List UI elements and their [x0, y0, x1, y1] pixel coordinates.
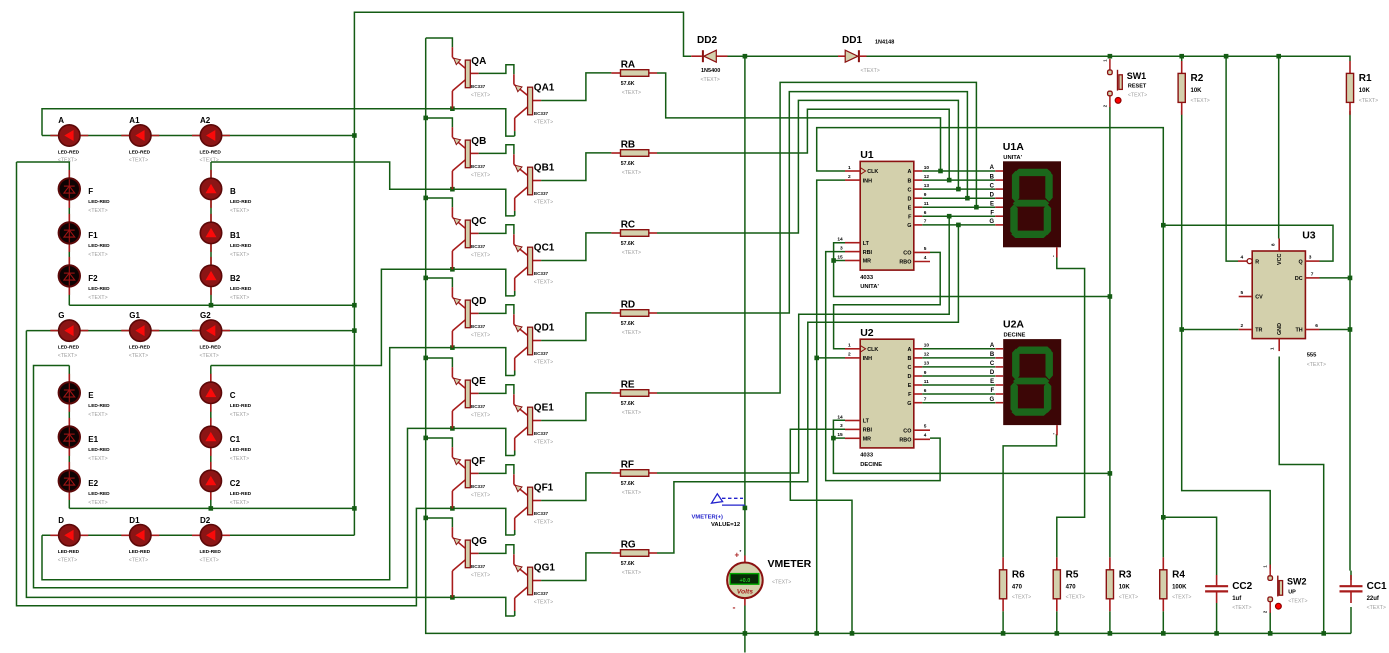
- svg-text:QC: QC: [471, 216, 486, 227]
- wire U2 MR link: [833, 437, 845, 439]
- svg-text:<TEXT>: <TEXT>: [471, 253, 490, 259]
- resistor RA 57.6K: [611, 60, 657, 97]
- wire QF base to QF1 emitter: [479, 465, 514, 475]
- wire QD emitter link: [426, 278, 453, 287]
- svg-text:57.6K: 57.6K: [621, 161, 635, 167]
- svg-text:11: 11: [924, 201, 929, 207]
- LED G2: [192, 311, 230, 359]
- svg-text:9: 9: [924, 192, 927, 198]
- svg-text:5: 5: [924, 424, 927, 430]
- diode DD2 1N5400: [691, 35, 727, 83]
- svg-text:<TEXT>: <TEXT>: [1128, 93, 1147, 99]
- 7-segment display U2A DECINE: [990, 319, 1062, 439]
- wire U2 pin G to display U2A: [922, 402, 995, 404]
- svg-text:BC337: BC337: [534, 511, 549, 516]
- svg-text:3: 3: [840, 245, 843, 251]
- svg-text:2: 2: [848, 174, 851, 180]
- resistor RD 57.6K: [611, 300, 657, 337]
- svg-text:<TEXT>: <TEXT>: [88, 412, 107, 418]
- LED C: [200, 374, 252, 418]
- svg-text:<TEXT>: <TEXT>: [471, 493, 490, 499]
- svg-text:<TEXT>: <TEXT>: [534, 360, 553, 366]
- svg-text:<TEXT>: <TEXT>: [200, 353, 219, 359]
- wire CC2 bottom: [1216, 603, 1218, 633]
- svg-text:3: 3: [1309, 255, 1312, 261]
- wire segment-F net loop to QF/QF1 collectors: [17, 162, 515, 606]
- wire R1 bottom to DC/TH/CC1: [1349, 111, 1351, 570]
- transistor QD: [452, 287, 490, 347]
- svg-text:BC337: BC337: [471, 404, 486, 409]
- wire U2A common to R6: [1003, 434, 1056, 557]
- svg-text:U2: U2: [860, 327, 874, 339]
- svg-text:RE: RE: [621, 380, 635, 391]
- svg-text:RB: RB: [621, 140, 635, 151]
- svg-text:1: 1: [848, 343, 851, 349]
- svg-text:CO: CO: [903, 251, 911, 257]
- wire QB base to QB1 emitter: [479, 145, 514, 155]
- svg-text:C: C: [907, 365, 911, 371]
- transistor QD1: [514, 314, 555, 375]
- wire common-emitter bus and ground rail: [426, 38, 1351, 633]
- wire R6 bottom: [1002, 611, 1004, 633]
- LED F2: [59, 257, 111, 301]
- LED B2: [200, 257, 252, 301]
- svg-text:A: A: [58, 116, 64, 125]
- svg-text:G: G: [907, 223, 911, 229]
- wire segment-A net: LED A string loop to QA/QA1 collectors: [42, 109, 515, 136]
- svg-text:LED-RED: LED-RED: [230, 447, 252, 453]
- wire 555 DC link: [1320, 277, 1351, 279]
- svg-text:D: D: [907, 196, 911, 202]
- svg-text:<TEXT>: <TEXT>: [1119, 594, 1138, 600]
- svg-text:R3: R3: [1119, 569, 1132, 580]
- svg-text:BC337: BC337: [534, 591, 549, 596]
- svg-text:4033: 4033: [860, 453, 874, 459]
- svg-text:VCC: VCC: [1277, 254, 1283, 265]
- svg-text:<TEXT>: <TEXT>: [58, 558, 77, 564]
- wire QE base to QE1 emitter: [479, 385, 514, 395]
- svg-text:7: 7: [924, 219, 927, 225]
- LED C1: [200, 418, 252, 462]
- svg-text:C: C: [990, 183, 995, 189]
- wire segment-C net to QC/QC1 collectors: [211, 269, 515, 365]
- transistor QA: [452, 47, 490, 108]
- svg-text:7: 7: [1311, 272, 1314, 278]
- LED E2: [59, 462, 111, 506]
- svg-text:G2: G2: [200, 311, 211, 320]
- svg-text:10: 10: [924, 165, 930, 171]
- transistor QF: [452, 447, 490, 508]
- svg-text:B: B: [990, 352, 995, 358]
- svg-text:D1: D1: [129, 516, 140, 525]
- wire RE output to U1 pin E net: [657, 82, 976, 393]
- svg-text:BC337: BC337: [471, 164, 486, 169]
- wire VMETER bottom to ground: [744, 606, 746, 653]
- svg-text:3: 3: [840, 423, 843, 429]
- svg-text:1uf: 1uf: [1232, 596, 1242, 602]
- wire segment-E LED column: [68, 366, 70, 509]
- svg-text:<TEXT>: <TEXT>: [471, 413, 490, 419]
- svg-text:F: F: [991, 388, 995, 394]
- resistor R1 10K: [1346, 61, 1378, 115]
- svg-text:QB1: QB1: [534, 162, 555, 173]
- svg-text:57.6K: 57.6K: [621, 321, 635, 327]
- svg-text:14: 14: [837, 237, 843, 243]
- svg-text:<TEXT>: <TEXT>: [88, 456, 107, 462]
- svg-text:B2: B2: [230, 274, 241, 283]
- svg-text:<TEXT>: <TEXT>: [1012, 594, 1031, 600]
- svg-text:R: R: [1255, 259, 1259, 265]
- svg-text:LT: LT: [863, 241, 870, 247]
- wire RD output to U1 pin D net: [657, 92, 967, 313]
- wire QE1 base to RE: [541, 393, 611, 421]
- svg-text:<TEXT>: <TEXT>: [88, 252, 107, 258]
- capacitor CC1 22uf: [1340, 575, 1388, 611]
- wire QD base to QD1 emitter: [479, 305, 514, 315]
- transistor QB1: [514, 154, 555, 216]
- svg-text:BC337: BC337: [471, 244, 486, 249]
- svg-text:4033: 4033: [860, 275, 874, 281]
- svg-text:<TEXT>: <TEXT>: [58, 158, 77, 164]
- svg-text:RF: RF: [621, 460, 634, 471]
- svg-text:<TEXT>: <TEXT>: [622, 490, 641, 496]
- resistor RB 57.6K: [611, 140, 657, 177]
- wire U1 pin B to display U1A: [922, 179, 995, 181]
- svg-text:LED-RED: LED-RED: [88, 447, 110, 453]
- svg-text:<TEXT>: <TEXT>: [1066, 594, 1085, 600]
- svg-text:F: F: [88, 187, 93, 196]
- resistor R5 470: [1053, 557, 1085, 611]
- svg-text:10: 10: [924, 343, 930, 349]
- LED D1: [121, 516, 159, 564]
- svg-text:SW1: SW1: [1127, 71, 1147, 81]
- svg-text:10K: 10K: [1359, 88, 1371, 94]
- svg-text:B: B: [230, 187, 236, 196]
- wire U1 pin C to display U1A: [922, 188, 995, 190]
- svg-text:LED-RED: LED-RED: [88, 199, 110, 205]
- wire common bus vertical + top rail to DD2: [354, 12, 691, 535]
- svg-text:D: D: [58, 516, 64, 525]
- svg-text:CC1: CC1: [1367, 581, 1387, 592]
- wire QD1 base to RD: [541, 313, 611, 341]
- svg-text:INH: INH: [863, 178, 872, 184]
- transistor QB: [452, 127, 490, 189]
- svg-text:LED-RED: LED-RED: [230, 286, 252, 292]
- LED A: [50, 116, 88, 164]
- svg-text:<TEXT>: <TEXT>: [701, 77, 720, 83]
- svg-text:LED-RED: LED-RED: [88, 243, 110, 249]
- wire QG base to QG1 emitter: [479, 545, 514, 555]
- svg-text:QF1: QF1: [534, 482, 554, 493]
- wire segment-G net loop to QG/QG1 collectors: [26, 331, 514, 616]
- svg-text:<TEXT>: <TEXT>: [471, 333, 490, 339]
- wire QF1 base to RF: [541, 473, 611, 501]
- wire segment-B LED column: [210, 162, 212, 305]
- svg-text:13: 13: [924, 183, 930, 189]
- wire U1 pin E to display U1A: [922, 206, 995, 208]
- svg-text:12: 12: [924, 174, 930, 180]
- svg-text:LED-RED: LED-RED: [129, 149, 151, 155]
- svg-text:CC2: CC2: [1232, 581, 1252, 592]
- svg-text:<TEXT>: <TEXT>: [861, 68, 880, 74]
- wire QC1 base to RC: [541, 233, 611, 261]
- wire INH net U1-U2 to ground: [817, 180, 845, 633]
- svg-text:CV: CV: [1255, 295, 1263, 301]
- svg-text:DECINE: DECINE: [860, 462, 882, 468]
- resistor RG 57.6K: [611, 540, 657, 577]
- svg-text:LED-RED: LED-RED: [58, 149, 80, 155]
- svg-text:E: E: [88, 391, 94, 400]
- switch SW1 RESET: [1102, 59, 1147, 108]
- svg-text:<TEXT>: <TEXT>: [622, 90, 641, 96]
- svg-text:<TEXT>: <TEXT>: [534, 520, 553, 526]
- svg-text:LED-RED: LED-RED: [129, 344, 151, 350]
- wire 555 GND to ground rail: [1279, 357, 1324, 634]
- resistor R3 10K: [1106, 557, 1138, 611]
- wire U2 RBI to ground: [790, 429, 852, 633]
- svg-text:<TEXT>: <TEXT>: [471, 573, 490, 579]
- svg-text:470: 470: [1012, 584, 1023, 590]
- svg-text:LED-RED: LED-RED: [230, 491, 252, 497]
- svg-text:R4: R4: [1172, 569, 1185, 580]
- svg-text:LED-RED: LED-RED: [230, 243, 252, 249]
- svg-text:10K: 10K: [1119, 584, 1131, 590]
- svg-text:<TEXT>: <TEXT>: [230, 412, 249, 418]
- svg-text:4: 4: [1241, 255, 1244, 261]
- svg-text:RD: RD: [621, 300, 635, 311]
- svg-text:15: 15: [837, 254, 843, 260]
- LED A2: [192, 116, 230, 164]
- svg-text:57.6K: 57.6K: [621, 561, 635, 567]
- svg-text:R5: R5: [1066, 569, 1079, 580]
- svg-text:U1A: U1A: [1003, 141, 1024, 153]
- svg-text:1: 1: [848, 165, 851, 171]
- svg-text:11: 11: [924, 379, 929, 385]
- wire segment-B net to QB/QB1 collectors: [211, 162, 515, 216]
- resistor RC 57.6K: [611, 220, 657, 257]
- svg-text:LED-RED: LED-RED: [129, 549, 151, 555]
- resistor RF 57.6K: [611, 460, 657, 497]
- wire SW2 bottom: [1269, 612, 1271, 633]
- wire segment-A LED row: [42, 135, 354, 137]
- svg-text:<TEXT>: <TEXT>: [230, 295, 249, 301]
- IC U2 4033 counter DECINE: [837, 327, 930, 468]
- svg-text:6: 6: [1315, 323, 1318, 329]
- switch SW2 UP: [1263, 565, 1308, 614]
- IC U3 555 timer: [1238, 229, 1326, 368]
- svg-text:<TEXT>: <TEXT>: [88, 295, 107, 301]
- svg-text:B: B: [907, 356, 911, 362]
- svg-text:9: 9: [924, 370, 927, 376]
- svg-text:<TEXT>: <TEXT>: [200, 558, 219, 564]
- svg-text:R6: R6: [1012, 569, 1025, 580]
- svg-text:RBO: RBO: [899, 260, 911, 266]
- svg-text:7: 7: [924, 397, 927, 403]
- svg-text:<TEXT>: <TEXT>: [622, 410, 641, 416]
- resistor RE 57.6K: [611, 380, 657, 417]
- svg-text:C: C: [907, 187, 911, 193]
- svg-text:BC337: BC337: [471, 484, 486, 489]
- svg-text:<TEXT>: <TEXT>: [471, 173, 490, 179]
- svg-text:F2: F2: [88, 274, 98, 283]
- transistor QE1: [514, 394, 554, 455]
- svg-text:QA1: QA1: [534, 82, 555, 93]
- wire QG emitter link: [426, 518, 453, 527]
- svg-text:<TEXT>: <TEXT>: [1367, 605, 1386, 611]
- wire U1 MR link: [834, 260, 845, 262]
- svg-text:RG: RG: [621, 540, 636, 551]
- svg-text:<TEXT>: <TEXT>: [772, 580, 791, 586]
- svg-text:G: G: [989, 219, 994, 225]
- LED F: [59, 170, 111, 214]
- svg-text:1N4148: 1N4148: [875, 40, 894, 46]
- wire U2 pin A to display U2A: [922, 348, 995, 350]
- wire DD2-DD1 link: [728, 55, 839, 57]
- transistor QF1: [514, 474, 554, 535]
- svg-text:B1: B1: [230, 231, 241, 240]
- svg-text:A2: A2: [200, 116, 211, 125]
- svg-text:<TEXT>: <TEXT>: [534, 280, 553, 286]
- svg-text:<TEXT>: <TEXT>: [471, 93, 490, 99]
- LED F1: [59, 214, 111, 258]
- svg-text:D: D: [990, 192, 995, 198]
- svg-text:2: 2: [848, 352, 851, 358]
- svg-text:DD1: DD1: [842, 35, 862, 46]
- svg-text:U2A: U2A: [1003, 319, 1024, 331]
- svg-text:2: 2: [1241, 323, 1244, 329]
- svg-text:E: E: [990, 379, 994, 385]
- wire QC base to QC1 emitter: [479, 225, 514, 235]
- LED G: [50, 311, 88, 359]
- wire RC output to U1 pin C net: [657, 100, 958, 233]
- svg-text:B: B: [990, 174, 995, 180]
- wire U1 pin D to display U1A: [922, 197, 995, 199]
- svg-text:<TEXT>: <TEXT>: [129, 158, 148, 164]
- svg-text:D: D: [907, 374, 911, 380]
- svg-text:LED-RED: LED-RED: [200, 549, 222, 555]
- svg-text:-: -: [733, 603, 736, 613]
- wire E2/C2 bottom rail to common bus: [69, 507, 354, 509]
- wire VCC top rail: [867, 56, 1351, 61]
- svg-text:LED-RED: LED-RED: [230, 403, 252, 409]
- svg-text:BC337: BC337: [534, 351, 549, 356]
- wire SW1 to R3 vertical: [1109, 107, 1111, 557]
- svg-text:BC337: BC337: [534, 191, 549, 196]
- svg-text:DD2: DD2: [697, 35, 717, 46]
- svg-text:VALUE=12: VALUE=12: [711, 522, 740, 528]
- resistor R4 100K: [1160, 557, 1192, 611]
- svg-text:5: 5: [924, 246, 927, 252]
- transistor QG1: [514, 554, 555, 616]
- svg-text:QB: QB: [471, 136, 486, 147]
- svg-text:<TEXT>: <TEXT>: [1172, 594, 1191, 600]
- wire R4 bottom: [1162, 611, 1164, 633]
- svg-text:57.6K: 57.6K: [621, 481, 635, 487]
- svg-text:BC337: BC337: [534, 111, 549, 116]
- power flag VMETER(+) VALUE=12: [692, 494, 745, 528]
- svg-text:<TEXT>: <TEXT>: [1288, 599, 1307, 605]
- svg-text:QD: QD: [471, 296, 486, 307]
- wire 555 TH link: [1320, 329, 1351, 331]
- svg-text:LED-RED: LED-RED: [200, 149, 222, 155]
- svg-text:<TEXT>: <TEXT>: [1359, 98, 1378, 104]
- svg-text:5: 5: [1241, 290, 1244, 296]
- wire segment-C LED column: [210, 366, 212, 509]
- svg-text:6: 6: [924, 210, 927, 216]
- wire 555 VCC feed: [1278, 56, 1280, 238]
- transistor QA1: [514, 74, 555, 136]
- svg-text:<TEXT>: <TEXT>: [129, 353, 148, 359]
- wire CC1 bottom: [1350, 607, 1352, 633]
- wire VMETER feed vertical: [744, 56, 746, 555]
- svg-text:G: G: [990, 397, 995, 403]
- svg-text:<TEXT>: <TEXT>: [534, 120, 553, 126]
- svg-text:QC1: QC1: [534, 242, 555, 253]
- svg-text:BC337: BC337: [471, 84, 486, 89]
- wire RA output to U1 pin A net: [657, 73, 941, 171]
- svg-text:<TEXT>: <TEXT>: [534, 600, 553, 606]
- wire R4/CC2 branch: [1163, 517, 1216, 575]
- svg-text:G: G: [907, 401, 911, 407]
- svg-text:<TEXT>: <TEXT>: [58, 353, 77, 359]
- svg-text:E: E: [990, 201, 994, 207]
- wire QE emitter link: [426, 358, 453, 367]
- svg-text:B: B: [907, 178, 911, 184]
- LED A1: [121, 116, 159, 164]
- svg-text:LED-RED: LED-RED: [58, 549, 80, 555]
- svg-text:BC337: BC337: [471, 324, 486, 329]
- svg-text:*: *: [740, 549, 742, 554]
- wire U1 LT/MR reset net to SW1: [834, 243, 1110, 297]
- svg-text:4: 4: [924, 255, 927, 261]
- svg-text:12: 12: [924, 352, 930, 358]
- wire RG output to U1 pin G net: [657, 225, 958, 553]
- wire U1 RBI to U2 RBO: [826, 252, 940, 481]
- IC U1 4033 counter UNITA': [837, 149, 930, 290]
- wire junction dots: [209, 54, 1353, 636]
- svg-text:E: E: [908, 205, 912, 211]
- 7-segment display U1A UNITA': [989, 141, 1061, 261]
- svg-text:<TEXT>: <TEXT>: [88, 208, 107, 214]
- transistor QE: [452, 367, 490, 428]
- svg-text:1N5400: 1N5400: [701, 68, 720, 74]
- svg-text:QG: QG: [471, 536, 487, 547]
- LED B1: [200, 214, 252, 258]
- LED E: [59, 374, 111, 418]
- wire R2 top feed: [1181, 56, 1183, 61]
- wire U2 LT/MR reset net to SW1 line: [833, 420, 1110, 473]
- wire QA1 base to RA: [541, 73, 611, 101]
- wire U2 pin F to display U2A: [922, 393, 995, 395]
- transistor QG: [452, 527, 490, 597]
- svg-text:470: 470: [1066, 584, 1077, 590]
- svg-text:+0.0: +0.0: [739, 578, 750, 584]
- wire QC emitter link: [426, 198, 453, 207]
- svg-text:LED-RED: LED-RED: [230, 199, 252, 205]
- wire U2 pin D to display U2A: [922, 375, 995, 377]
- wire U2 pin E to display U2A: [922, 384, 995, 386]
- svg-text:DECINE: DECINE: [1004, 333, 1026, 339]
- svg-text:RA: RA: [621, 60, 635, 71]
- svg-text:13: 13: [924, 361, 930, 367]
- svg-text:RBI: RBI: [863, 250, 873, 256]
- svg-text:6: 6: [924, 388, 927, 394]
- svg-text:LED-RED: LED-RED: [88, 403, 110, 409]
- svg-text:TR: TR: [1255, 328, 1262, 334]
- svg-text:4: 4: [924, 433, 927, 439]
- svg-text:14: 14: [837, 414, 843, 420]
- wire U1A common to R5: [1057, 258, 1085, 558]
